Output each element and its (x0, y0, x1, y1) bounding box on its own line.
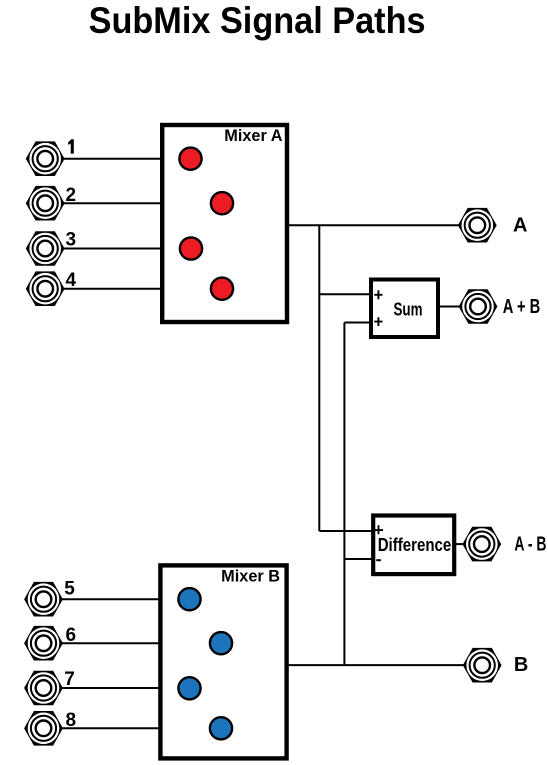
input jack 2 (26, 186, 65, 221)
output jack A-B (462, 527, 501, 562)
mixer B box (160, 565, 286, 758)
wire into Sum plus input 2 (344, 322, 372, 324)
minus sign Difference input (376, 559, 381, 561)
wire Difference output to jack A-B (455, 543, 464, 545)
sum box U1 (371, 280, 438, 338)
plus sign Difference input (374, 525, 383, 534)
knob A4 (211, 278, 233, 300)
label "1" (68, 139, 74, 153)
wire jack2 to Mixer A (63, 202, 163, 204)
input jack 1 (26, 141, 65, 176)
output jack B (463, 648, 502, 683)
output jack A+B (459, 289, 498, 324)
mixer A box (162, 125, 287, 322)
wire jack6 to Mixer B (62, 642, 161, 644)
knob B4 (210, 717, 232, 739)
wire jack7 to Mixer B (62, 687, 161, 689)
svg-text:3: 3 (66, 229, 77, 250)
knob A1 (179, 148, 201, 170)
svg-text:5: 5 (64, 579, 75, 600)
wire vertical from Sum plus input 2 to node B (343, 323, 345, 667)
input jack 6 (24, 626, 63, 661)
knob A2 (211, 192, 233, 214)
svg-text:A + B: A + B (503, 296, 541, 318)
knob B1 (178, 588, 200, 610)
wire Sum output to jack A+B (439, 306, 460, 308)
svg-text:7: 7 (64, 669, 75, 690)
input jack 7 (24, 671, 63, 706)
knob B3 (178, 677, 200, 699)
wire jack4 to Mixer A (63, 288, 163, 290)
svg-text:A: A (513, 215, 527, 237)
svg-text:Sum: Sum (394, 300, 423, 320)
input jack 3 (26, 231, 65, 266)
svg-text:Mixer A: Mixer A (224, 127, 282, 145)
svg-text:Difference: Difference (378, 535, 452, 555)
wire into Difference minus input (344, 558, 375, 560)
svg-text:B: B (514, 654, 528, 676)
wire Mixer B output to jack B (288, 664, 464, 666)
wire jack8 to Mixer B (62, 727, 161, 729)
wire jack1 to Mixer A (63, 158, 163, 160)
input jack 4 (26, 271, 65, 306)
wire Mixer A output to jack A (288, 224, 460, 226)
plus sign Sum input 1 (374, 290, 382, 299)
wire jack5 to Mixer B (62, 598, 161, 600)
input jack 5 (24, 582, 63, 617)
input jack 8 (24, 711, 63, 746)
knob A3 (180, 237, 202, 259)
knob B2 (210, 632, 232, 654)
plus sign Sum input 2 (374, 317, 382, 326)
svg-text:A - B: A - B (514, 534, 546, 556)
svg-text:SubMix Signal Paths: SubMix Signal Paths (89, 0, 426, 41)
wire into Difference plus input (319, 530, 375, 532)
wire vertical from node A to Difference plus input (318, 225, 320, 531)
wire jack3 to Mixer A (63, 248, 163, 250)
svg-text:Mixer B: Mixer B (221, 567, 280, 585)
wire branch to Sum plus input 1 (319, 293, 372, 295)
difference box U2 (373, 516, 454, 575)
output jack A (458, 208, 497, 243)
